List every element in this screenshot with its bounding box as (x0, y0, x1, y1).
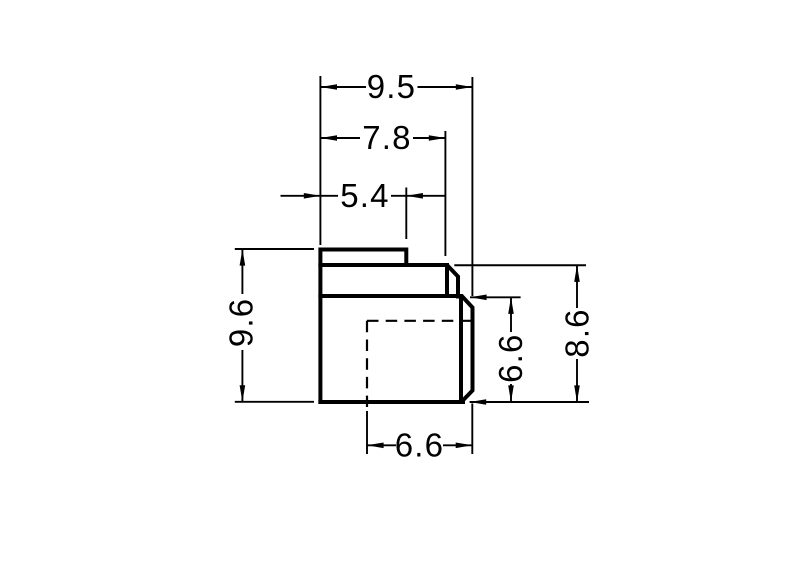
svg-text:9.5: 9.5 (367, 68, 416, 105)
svg-text:6.6: 6.6 (492, 333, 529, 382)
svg-text:5.4: 5.4 (340, 177, 389, 214)
svg-text:8.6: 8.6 (558, 308, 595, 357)
svg-text:7.8: 7.8 (362, 119, 411, 156)
svg-text:9.6: 9.6 (223, 298, 260, 347)
svg-text:6.6: 6.6 (395, 427, 444, 464)
